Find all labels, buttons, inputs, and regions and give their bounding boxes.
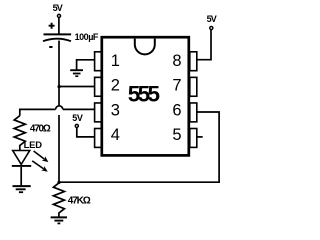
pin 3 stub	[95, 103, 102, 122]
pin 7 stub	[190, 77, 197, 96]
pin 8 stub	[190, 52, 197, 71]
wire bottom net: pin 6 to right rail down and left to R2 junction	[59, 112, 219, 182]
svg-text:2: 2	[111, 76, 120, 94]
pin 1 stub	[95, 52, 102, 71]
junction dot at threshold node	[57, 181, 60, 184]
wire 5V node to pin 8 (VCC)	[197, 30, 211, 60]
junction dot at trigger node	[58, 85, 61, 88]
resistor R2 47KΩ	[53, 183, 90, 217]
ground (below R2)	[51, 217, 67, 223]
wire pin 5 (CTRL) short stub	[197, 136, 202, 138]
wire 5V terminal to C1 top plate	[58, 18, 60, 35]
pin 2 stub	[95, 77, 102, 96]
ground (below LED)	[13, 186, 31, 192]
svg-text:LED: LED	[24, 139, 43, 150]
svg-text:5: 5	[172, 126, 181, 144]
svg-text:5V: 5V	[72, 113, 83, 123]
ground (at pin 1)	[70, 70, 83, 76]
svg-text:100µF: 100µF	[75, 32, 99, 42]
wire pin 3 (OUT) to R1 corner, left part	[20, 109, 56, 115]
IC U1 pin-1 notch	[135, 39, 155, 55]
svg-text:1: 1	[111, 52, 120, 70]
LED D1	[12, 139, 49, 185]
svg-text:5V: 5V	[207, 14, 217, 24]
wire pin 3 (OUT), right part to pin 3 stub	[63, 108, 95, 110]
svg-text:3: 3	[111, 102, 120, 120]
pin 6 stub	[190, 103, 197, 122]
svg-text:555: 555	[128, 81, 160, 106]
wire vertical below hop down to R2 junction	[58, 115, 60, 183]
svg-text:4: 4	[111, 126, 120, 144]
IC U1 555 timer body	[102, 37, 189, 155]
wire C1 bottom plate down to hop	[58, 41, 60, 106]
svg-text:7: 7	[172, 76, 181, 94]
pin 5 stub	[190, 129, 197, 148]
node 5V (top-left supply terminal)	[53, 3, 63, 17]
svg-text:47KΩ: 47KΩ	[68, 195, 91, 206]
wire node to pin 2 (TRIG)	[59, 86, 95, 88]
wire pin 1 (GND) to ground	[77, 60, 95, 70]
resistor R1 470Ω	[14, 116, 51, 151]
svg-text:470Ω: 470Ω	[30, 123, 51, 134]
wire hop (no connection) over vertical wire	[56, 106, 63, 110]
wire 5V node to pin 4 (RESET)	[77, 128, 95, 137]
capacitor C1 100µF (polarized)	[43, 23, 99, 47]
svg-text:5V: 5V	[53, 3, 63, 13]
svg-text:6: 6	[172, 102, 181, 120]
node 5V (top-right supply terminal)	[207, 14, 217, 29]
svg-text:8: 8	[172, 52, 181, 70]
pin 4 stub	[95, 129, 102, 148]
node 5V (reset supply at pin 4)	[72, 113, 83, 127]
